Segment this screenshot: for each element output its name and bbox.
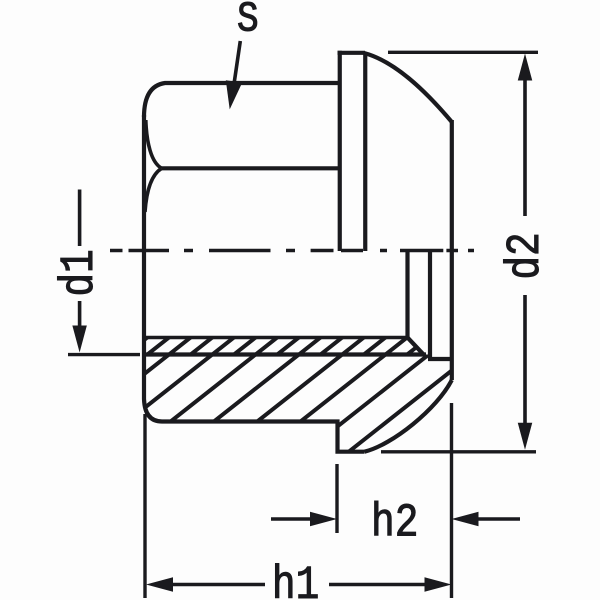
hex facet curve lower	[145, 168, 162, 212]
h2 arrowhead left	[310, 512, 337, 527]
dimension d2 arrowhead top	[518, 54, 533, 81]
dimension d1 arrowhead	[72, 326, 87, 353]
counterbore edge	[428, 251, 432, 359]
h2 ext line left	[335, 464, 338, 533]
label h1	[272, 560, 319, 600]
hex facet line	[162, 166, 340, 170]
hatching thread band	[118, 331, 481, 361]
collar top face	[338, 51, 366, 55]
collar top curve	[364, 53, 452, 122]
label d1	[54, 249, 107, 296]
flange bottom line	[162, 422, 365, 452]
dimension d2 ext bottom	[381, 450, 536, 453]
collar left edge	[338, 51, 342, 251]
dimension d2 line	[523, 78, 527, 425]
collar inner edge	[363, 53, 367, 251]
dimension d2 arrowhead bottom	[518, 423, 533, 450]
label h2	[371, 498, 418, 551]
svg-text:d2: d2	[500, 232, 553, 279]
dimension h2 line left	[271, 517, 312, 521]
svg-text:d1: d1	[54, 249, 107, 296]
sphere curve (section outline)	[365, 380, 452, 452]
h1 arrowhead left	[146, 577, 173, 592]
dimension h2 line right	[478, 517, 520, 521]
h2 arrowhead right	[452, 512, 479, 527]
thread end edge	[405, 251, 409, 339]
nut top face	[144, 83, 340, 117]
dimension d2 ext top	[388, 51, 538, 54]
collar right face	[450, 120, 454, 380]
dimension h1 line	[172, 583, 425, 587]
leader S	[234, 41, 240, 82]
hex facet curve upper	[146, 120, 162, 168]
svg-text:h1: h1	[272, 560, 319, 600]
h2/h1 ext line right	[450, 403, 453, 598]
nut left edge	[144, 115, 162, 422]
svg-text:S: S	[237, 0, 259, 43]
svg-text:h2: h2	[371, 498, 418, 551]
leader S arrowhead	[226, 80, 242, 109]
dimension d1 line	[78, 190, 82, 331]
label d2	[500, 232, 553, 279]
bore line	[144, 352, 426, 356]
dimension d1 ext line	[68, 353, 140, 356]
h1 ext line left	[143, 414, 146, 598]
thread minor line	[144, 336, 408, 340]
thread chamfer	[408, 338, 424, 355]
center line	[110, 249, 474, 252]
label S	[237, 0, 259, 43]
counterbore bottom	[428, 357, 452, 361]
h1 arrowhead right	[425, 577, 452, 592]
hatching main	[0, 318, 600, 468]
